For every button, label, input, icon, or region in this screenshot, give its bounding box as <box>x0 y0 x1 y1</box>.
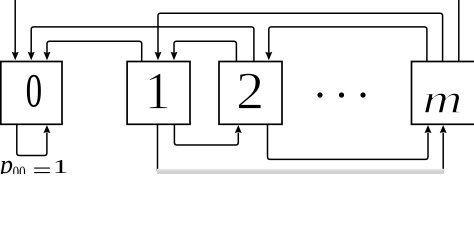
wire W4: transition m to 1 <box>158 13 443 61</box>
svg-text:=: = <box>33 157 52 174</box>
ellipsis dot 1 <box>317 92 322 97</box>
wire S4 left: vertical from box 1 bottom down to cropped bottom line <box>157 124 159 171</box>
wire W1: arrow into box 0 top from cropped top edge <box>14 0 16 53</box>
wire S2: transition 1 to 2 <box>174 124 238 145</box>
svg-text:m: m <box>423 76 463 122</box>
arrowhead into box 0 top (from W1) <box>12 52 19 60</box>
arrowhead into box 2 top (from W6) <box>265 52 272 60</box>
arrowhead into box 1 top (from W4) <box>155 52 162 60</box>
wire W2: transition 2 to 0 <box>31 27 254 61</box>
wire W6: transition m to 2 <box>269 27 427 61</box>
svg-text:1: 1 <box>145 63 171 121</box>
arrowhead into box 0 bottom (self loop S1) <box>43 125 50 133</box>
state box 0 <box>1 62 62 125</box>
arrowhead into box 0 top (from W2) <box>28 52 35 60</box>
wire S4 right: vertical up into box m bottom <box>442 133 444 173</box>
ellipsis dot 3 <box>360 92 365 97</box>
arrowhead into box 2 bottom (from S2) <box>235 125 242 133</box>
wire W3: transition 1 to 0 <box>47 41 142 61</box>
wire W7: vertical from box m top to cropped top edge <box>458 0 460 61</box>
arrowhead into box m bottom (from S3) <box>425 125 432 133</box>
arrowhead into box 0 top (from W3) <box>44 52 51 60</box>
state box 1 <box>127 62 190 125</box>
svg-text:1: 1 <box>53 156 69 174</box>
svg-text:2: 2 <box>236 63 264 121</box>
svg-text:00: 00 <box>13 164 26 174</box>
state box m <box>412 62 474 125</box>
svg-text:p: p <box>0 150 13 174</box>
arrowhead into box 1 top (from W5) <box>171 52 178 60</box>
ellipsis dot 2 <box>339 92 344 97</box>
arrowhead into box m bottom (from S4) <box>440 125 447 133</box>
wire S1: self loop on state 0 <box>17 124 47 155</box>
svg-text:0: 0 <box>26 64 43 117</box>
state box 2 <box>219 62 282 125</box>
wire S3: transition 2 to m <box>268 124 429 159</box>
wire W5: transition 2 to 1 <box>174 41 236 61</box>
